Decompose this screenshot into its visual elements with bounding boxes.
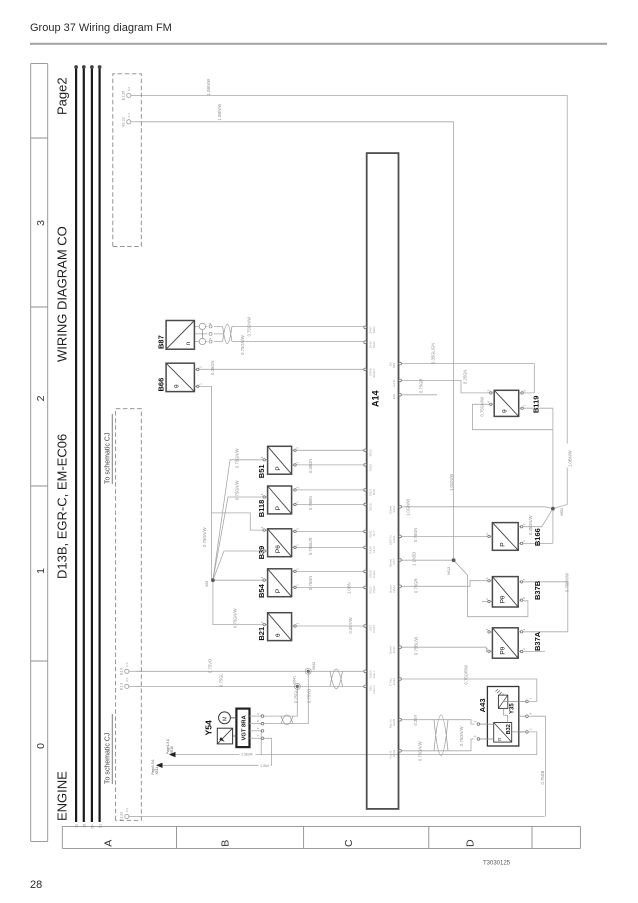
svg-text:P: P bbox=[500, 542, 507, 546]
svg-text:T3030125: T3030125 bbox=[483, 861, 511, 867]
svg-text:B54: B54 bbox=[257, 583, 266, 598]
svg-text:X652: X652 bbox=[560, 508, 564, 516]
svg-text:1: 1 bbox=[35, 568, 47, 574]
svg-text:1.0BN: 1.0BN bbox=[347, 582, 352, 594]
svg-text:0.6: 0.6 bbox=[125, 677, 129, 682]
svg-text:WIRING DIAGRAM CO: WIRING DIAGRAM CO bbox=[55, 226, 70, 362]
svg-text:Pθ: Pθ bbox=[275, 545, 282, 553]
svg-text:0.35Y/W: 0.35Y/W bbox=[348, 617, 353, 633]
svg-text:Can H: Can H bbox=[372, 685, 376, 693]
svg-text:0.75GN: 0.75GN bbox=[413, 528, 418, 542]
svg-text:1.0BN/W: 1.0BN/W bbox=[568, 450, 573, 467]
svg-text:EA31: EA31 bbox=[392, 379, 396, 386]
svg-text:0.75GN/W: 0.75GN/W bbox=[240, 335, 245, 355]
svg-text:DA7: DA7 bbox=[392, 559, 396, 565]
svg-text:0.75BL/R: 0.75BL/R bbox=[308, 538, 313, 555]
svg-text:VGT 8RA: VGT 8RA bbox=[242, 715, 248, 741]
svg-text:B32: B32 bbox=[506, 724, 512, 734]
svg-text:0.75GN/W: 0.75GN/W bbox=[247, 317, 252, 337]
svg-text:0.75GN/W: 0.75GN/W bbox=[459, 726, 464, 746]
svg-text:0.75GN/W: 0.75GN/W bbox=[235, 448, 240, 468]
svg-text:B21: B21 bbox=[257, 627, 266, 641]
svg-text:0.75GN/W: 0.75GN/W bbox=[235, 480, 240, 500]
svg-text:B: B bbox=[220, 840, 232, 847]
svg-text:Turbo: Turbo bbox=[372, 326, 376, 334]
svg-text:D: D bbox=[465, 839, 477, 847]
svg-text:0.75GN/W: 0.75GN/W bbox=[480, 397, 485, 417]
svg-text:E1.3: E1.3 bbox=[119, 683, 123, 690]
svg-text:SA11: SA11 bbox=[392, 505, 396, 512]
svg-text:0.75VO: 0.75VO bbox=[307, 688, 312, 703]
svg-text:0.75GR: 0.75GR bbox=[419, 379, 424, 393]
svg-text:1.0BN/W: 1.0BN/W bbox=[206, 79, 211, 96]
svg-text:61: 61 bbox=[98, 824, 102, 828]
svg-text:EB10: EB10 bbox=[369, 503, 373, 510]
svg-text:B118: B118 bbox=[257, 500, 266, 518]
svg-text:XE11: XE11 bbox=[155, 767, 159, 775]
svg-text:1.0GN/W: 1.0GN/W bbox=[449, 474, 454, 491]
svg-text:X63: X63 bbox=[205, 581, 209, 587]
svg-text:E1.6: E1.6 bbox=[119, 668, 123, 675]
svg-text:DA21: DA21 bbox=[392, 535, 396, 543]
svg-text:0: 0 bbox=[35, 743, 47, 749]
svg-text:B37A: B37A bbox=[533, 631, 542, 651]
svg-text:0.75GN: 0.75GN bbox=[308, 576, 313, 590]
svg-text:EA42: EA42 bbox=[392, 678, 396, 685]
svg-text:Page2: Page2 bbox=[55, 77, 70, 115]
svg-text:X612: X612 bbox=[447, 567, 451, 575]
svg-text:0.75BN/W: 0.75BN/W bbox=[565, 573, 570, 592]
svg-text:0.25GN: 0.25GN bbox=[463, 370, 468, 384]
svg-text:Y54: Y54 bbox=[204, 720, 214, 736]
svg-text:EB16: EB16 bbox=[369, 449, 373, 456]
svg-text:Can L: Can L bbox=[372, 670, 376, 678]
svg-text:Pθ: Pθ bbox=[500, 595, 507, 603]
svg-text:0.75GL: 0.75GL bbox=[219, 673, 224, 687]
svg-text:A43: A43 bbox=[478, 698, 487, 712]
svg-text:D+: D+ bbox=[91, 824, 95, 828]
svg-text:P: P bbox=[275, 589, 282, 593]
svg-text:0.6: 0.6 bbox=[127, 113, 131, 118]
svg-text:To schematic CJ: To schematic CJ bbox=[105, 733, 112, 784]
svg-text:0.75BN: 0.75BN bbox=[308, 496, 313, 510]
svg-text:B87: B87 bbox=[157, 335, 166, 349]
svg-text:B37B: B37B bbox=[533, 580, 542, 600]
svg-text:E1.22: E1.22 bbox=[121, 117, 125, 126]
svg-text:0.75GN/W: 0.75GN/W bbox=[233, 608, 238, 628]
svg-text:EA32: EA32 bbox=[392, 749, 396, 756]
svg-text:θ: θ bbox=[275, 633, 282, 637]
svg-text:B66: B66 bbox=[157, 378, 166, 392]
svg-text:0.35GN: 0.35GN bbox=[308, 459, 313, 473]
svg-text:B51: B51 bbox=[257, 464, 266, 478]
svg-text:Pθ: Pθ bbox=[500, 646, 507, 654]
svg-text:28: 28 bbox=[30, 879, 42, 891]
svg-text:M: M bbox=[223, 716, 229, 720]
svg-text:0.75BL/W: 0.75BL/W bbox=[414, 637, 419, 655]
svg-text:EB15: EB15 bbox=[369, 464, 373, 471]
svg-text:0.35GN/W: 0.35GN/W bbox=[528, 515, 533, 535]
svg-text:To schematic CJ: To schematic CJ bbox=[105, 433, 112, 484]
svg-text:n: n bbox=[185, 341, 192, 345]
svg-text:VSpd: VSpd bbox=[372, 586, 376, 593]
svg-text:E1.22: E1.22 bbox=[119, 812, 123, 821]
svg-text:θ: θ bbox=[501, 409, 508, 413]
svg-text:ENGINE: ENGINE bbox=[55, 771, 70, 821]
svg-text:P: P bbox=[275, 506, 282, 510]
svg-text:1.0GN/W: 1.0GN/W bbox=[406, 499, 411, 516]
svg-text:X641: X641 bbox=[293, 676, 297, 684]
svg-text:A: A bbox=[103, 840, 115, 847]
svg-text:0.75SB: 0.75SB bbox=[540, 771, 545, 785]
svg-text:DB2: DB2 bbox=[392, 362, 396, 368]
svg-text:Oil P: Oil P bbox=[372, 489, 376, 495]
svg-text:0.75GN/W: 0.75GN/W bbox=[202, 527, 207, 547]
svg-text:2: 2 bbox=[35, 395, 47, 401]
svg-text:3: 3 bbox=[35, 220, 47, 226]
svg-text:E1.25: E1.25 bbox=[121, 91, 125, 100]
svg-text:A14: A14 bbox=[371, 390, 381, 407]
svg-text:B39: B39 bbox=[257, 546, 266, 560]
svg-text:D13B, EGR-C, EM-EC06: D13B, EGR-C, EM-EC06 bbox=[55, 434, 70, 579]
svg-text:0.75GN/W: 0.75GN/W bbox=[418, 741, 423, 761]
svg-text:EGR-T: EGR-T bbox=[372, 368, 376, 377]
svg-text:θ: θ bbox=[173, 384, 180, 388]
svg-text:DA22: DA22 bbox=[392, 585, 396, 593]
svg-text:0.35Y: 0.35Y bbox=[413, 714, 418, 725]
svg-text:EA35: EA35 bbox=[392, 718, 396, 725]
svg-text:1 1N5D: 1 1N5D bbox=[412, 552, 417, 566]
svg-text:B166: B166 bbox=[533, 528, 542, 546]
svg-text:0.6: 0.6 bbox=[125, 807, 129, 812]
svg-text:1.0BN/W: 1.0BN/W bbox=[217, 104, 222, 121]
svg-text:B119: B119 bbox=[532, 396, 541, 414]
svg-text:CoolT: CoolT bbox=[372, 625, 376, 633]
svg-text:Y35: Y35 bbox=[510, 703, 516, 714]
svg-text:0.6: 0.6 bbox=[127, 86, 131, 91]
svg-text:Air T: Air T bbox=[372, 530, 376, 536]
svg-text:0.75VO: 0.75VO bbox=[208, 658, 213, 673]
svg-text:0.75GR/W: 0.75GR/W bbox=[464, 665, 469, 685]
svg-text:1.5B/R: 1.5B/R bbox=[241, 753, 253, 757]
svg-text:0.35GN: 0.35GN bbox=[210, 360, 215, 374]
svg-text:15: 15 bbox=[83, 824, 87, 828]
svg-text:Group 37 Wiring diagram FM: Group 37 Wiring diagram FM bbox=[30, 22, 172, 34]
svg-text:EB4: EB4 bbox=[392, 393, 396, 399]
svg-text:1.5W: 1.5W bbox=[260, 764, 269, 768]
svg-text:C: C bbox=[343, 839, 355, 847]
svg-text:Crank: Crank bbox=[372, 570, 376, 578]
svg-text:n: n bbox=[497, 738, 503, 741]
svg-text:EA47: EA47 bbox=[392, 646, 396, 653]
svg-text:Turbo: Turbo bbox=[372, 341, 376, 349]
svg-text:Air Fl: Air Fl bbox=[372, 546, 376, 553]
svg-text:P: P bbox=[275, 466, 282, 470]
svg-text:30: 30 bbox=[75, 824, 79, 828]
svg-text:0.75GL: 0.75GL bbox=[294, 689, 299, 703]
svg-text:0.75GR: 0.75GR bbox=[414, 579, 419, 593]
svg-text:0.35GL/GN: 0.35GL/GN bbox=[431, 343, 436, 364]
svg-text:X642: X642 bbox=[312, 662, 316, 670]
svg-text:0.6: 0.6 bbox=[125, 662, 129, 667]
svg-text:XE10: XE10 bbox=[170, 746, 174, 754]
